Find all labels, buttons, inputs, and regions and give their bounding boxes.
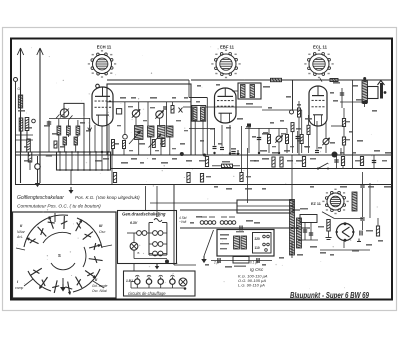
svg-text:Ig Osc: Ig Osc: [250, 267, 264, 272]
svg-text:comp: comp: [15, 286, 23, 290]
svg-text:0.1 μF: 0.1 μF: [250, 261, 260, 265]
svg-text:Osc. NAat.: Osc. NAat.: [92, 289, 108, 293]
svg-text:Golflengteschakelaar: Golflengteschakelaar: [17, 195, 64, 201]
svg-text:circuits de chauffage: circuits de chauffage: [128, 291, 166, 296]
svg-text:~Volt: ~Volt: [179, 220, 186, 224]
svg-text:S: S: [58, 253, 61, 258]
svg-text:Blaupunkt - Super 6 BW 69: Blaupunkt - Super 6 BW 69: [290, 291, 369, 300]
svg-text:ECL 11: ECL 11: [313, 45, 328, 50]
svg-text:Commutateur Pos. O.C. ( tu d: Commutateur Pos. O.C. ( tu de bouton): [17, 204, 101, 210]
svg-text:Pos. K.G. (Van knop uitgedrukt: Pos. K.G. (Van knop uitgedrukt): [75, 195, 140, 200]
svg-text:6.3V: 6.3V: [130, 221, 138, 225]
svg-text:220: 220: [255, 237, 261, 241]
svg-text:EZ 11: EZ 11: [311, 202, 321, 206]
svg-text:L.G. 90-110 μA: L.G. 90-110 μA: [238, 283, 265, 288]
svg-text:110: 110: [255, 246, 260, 250]
svg-text:Gol. lengte: Gol. lengte: [92, 284, 108, 288]
svg-text:EBF 11: EBF 11: [220, 45, 235, 50]
svg-text:NAar: NAar: [17, 230, 26, 234]
svg-text:AcL: AcL: [16, 235, 23, 239]
svg-text:2 μF: 2 μF: [213, 261, 221, 265]
svg-text:ECH 11: ECH 11: [97, 45, 112, 50]
svg-text:1.5U: 1.5U: [126, 279, 133, 283]
svg-text:Osc: Osc: [99, 230, 106, 234]
svg-text:2A: 2A: [156, 214, 160, 218]
svg-text:B: B: [138, 251, 140, 255]
